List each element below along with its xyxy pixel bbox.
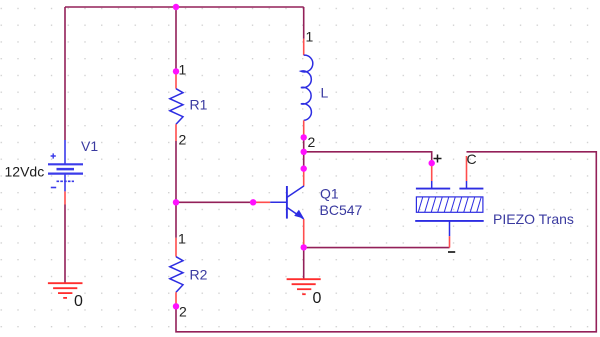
svg-text:2: 2 — [179, 132, 187, 148]
pin R1 pin2 — [175, 124, 177, 141]
junction collector pin — [301, 165, 307, 171]
pin L pin2 — [303, 120, 305, 137]
junction collector node — [301, 149, 307, 155]
resistor R2 — [170, 257, 183, 293]
pin piezo plus — [431, 163, 433, 181]
svg-text:0: 0 — [313, 290, 322, 307]
wire inductor pin 2 to collector node — [303, 137, 305, 168]
pin V1 bottom — [64, 191, 66, 204]
transistor Q1 — [270, 186, 304, 219]
ground 0 under V1 — [48, 283, 83, 298]
svg-text:2: 2 — [308, 134, 316, 150]
junction base pin — [250, 199, 256, 205]
wire base node to Q1 base — [176, 201, 253, 203]
pin R2 pin1 — [175, 238, 177, 257]
svg-text:2: 2 — [179, 304, 187, 320]
svg-text:R2: R2 — [190, 267, 208, 283]
junction R1 pin1 — [173, 68, 179, 74]
pin piezo C — [466, 156, 468, 181]
svg-text:BC547: BC547 — [320, 202, 363, 218]
junction piezo plus — [429, 160, 435, 166]
battery V1 — [48, 140, 83, 191]
pin R2 pin2 — [175, 292, 177, 306]
label plus sign (piezo) — [434, 155, 442, 163]
svg-text:C: C — [467, 151, 477, 167]
ground 0 under Q1 emitter — [287, 279, 321, 294]
pin Q1 emitter — [303, 219, 305, 248]
resistor R1 — [170, 89, 183, 125]
label minus sign (piezo) — [448, 251, 455, 253]
wire collector node to piezo plus — [304, 152, 432, 163]
pin R1 pin1 — [175, 71, 177, 88]
wire V1 minus to ground — [64, 205, 66, 283]
wire top rail corner to inductor pin 1 — [303, 7, 305, 39]
pin piezo minus — [449, 236, 451, 247]
svg-text:1: 1 — [179, 62, 187, 78]
junction emitter node — [301, 244, 307, 250]
svg-text:V1: V1 — [81, 138, 98, 154]
pin Q1 base — [253, 201, 270, 203]
junction base node — [173, 199, 179, 205]
wire left rail down to V1 — [64, 7, 66, 140]
svg-text:PIEZO Trans: PIEZO Trans — [493, 211, 574, 227]
wire R1 branch from top rail — [175, 7, 177, 71]
svg-text:1: 1 — [306, 29, 314, 45]
junction R2 pin2 — [173, 303, 179, 309]
pin L pin1 — [303, 39, 305, 55]
svg-text:Q1: Q1 — [320, 186, 339, 202]
piezo transducer left electrode — [416, 181, 450, 189]
svg-text:0: 0 — [74, 293, 83, 310]
piezo transducer right electrode — [459, 181, 483, 189]
wire R1 to R2 through base node — [175, 141, 177, 238]
junction top rail R1 — [173, 4, 179, 10]
svg-text:L: L — [321, 85, 329, 101]
svg-text:12Vdc: 12Vdc — [5, 164, 45, 180]
pin Q1 collector — [303, 169, 305, 186]
svg-text:R1: R1 — [190, 97, 208, 113]
wire top rail from V1 to inductor — [65, 6, 304, 8]
wire emitter node to ground — [303, 248, 305, 279]
wire emitter node to piezo minus — [304, 247, 450, 249]
piezo transducer crystal body — [416, 197, 483, 212]
svg-text:1: 1 — [178, 231, 186, 247]
junction L pin2 — [301, 134, 307, 140]
inductor L — [301, 55, 313, 120]
wire C node loop right edge bottom to R2 pin 2 — [176, 152, 596, 332]
piezo transducer bottom electrode — [415, 221, 484, 236]
